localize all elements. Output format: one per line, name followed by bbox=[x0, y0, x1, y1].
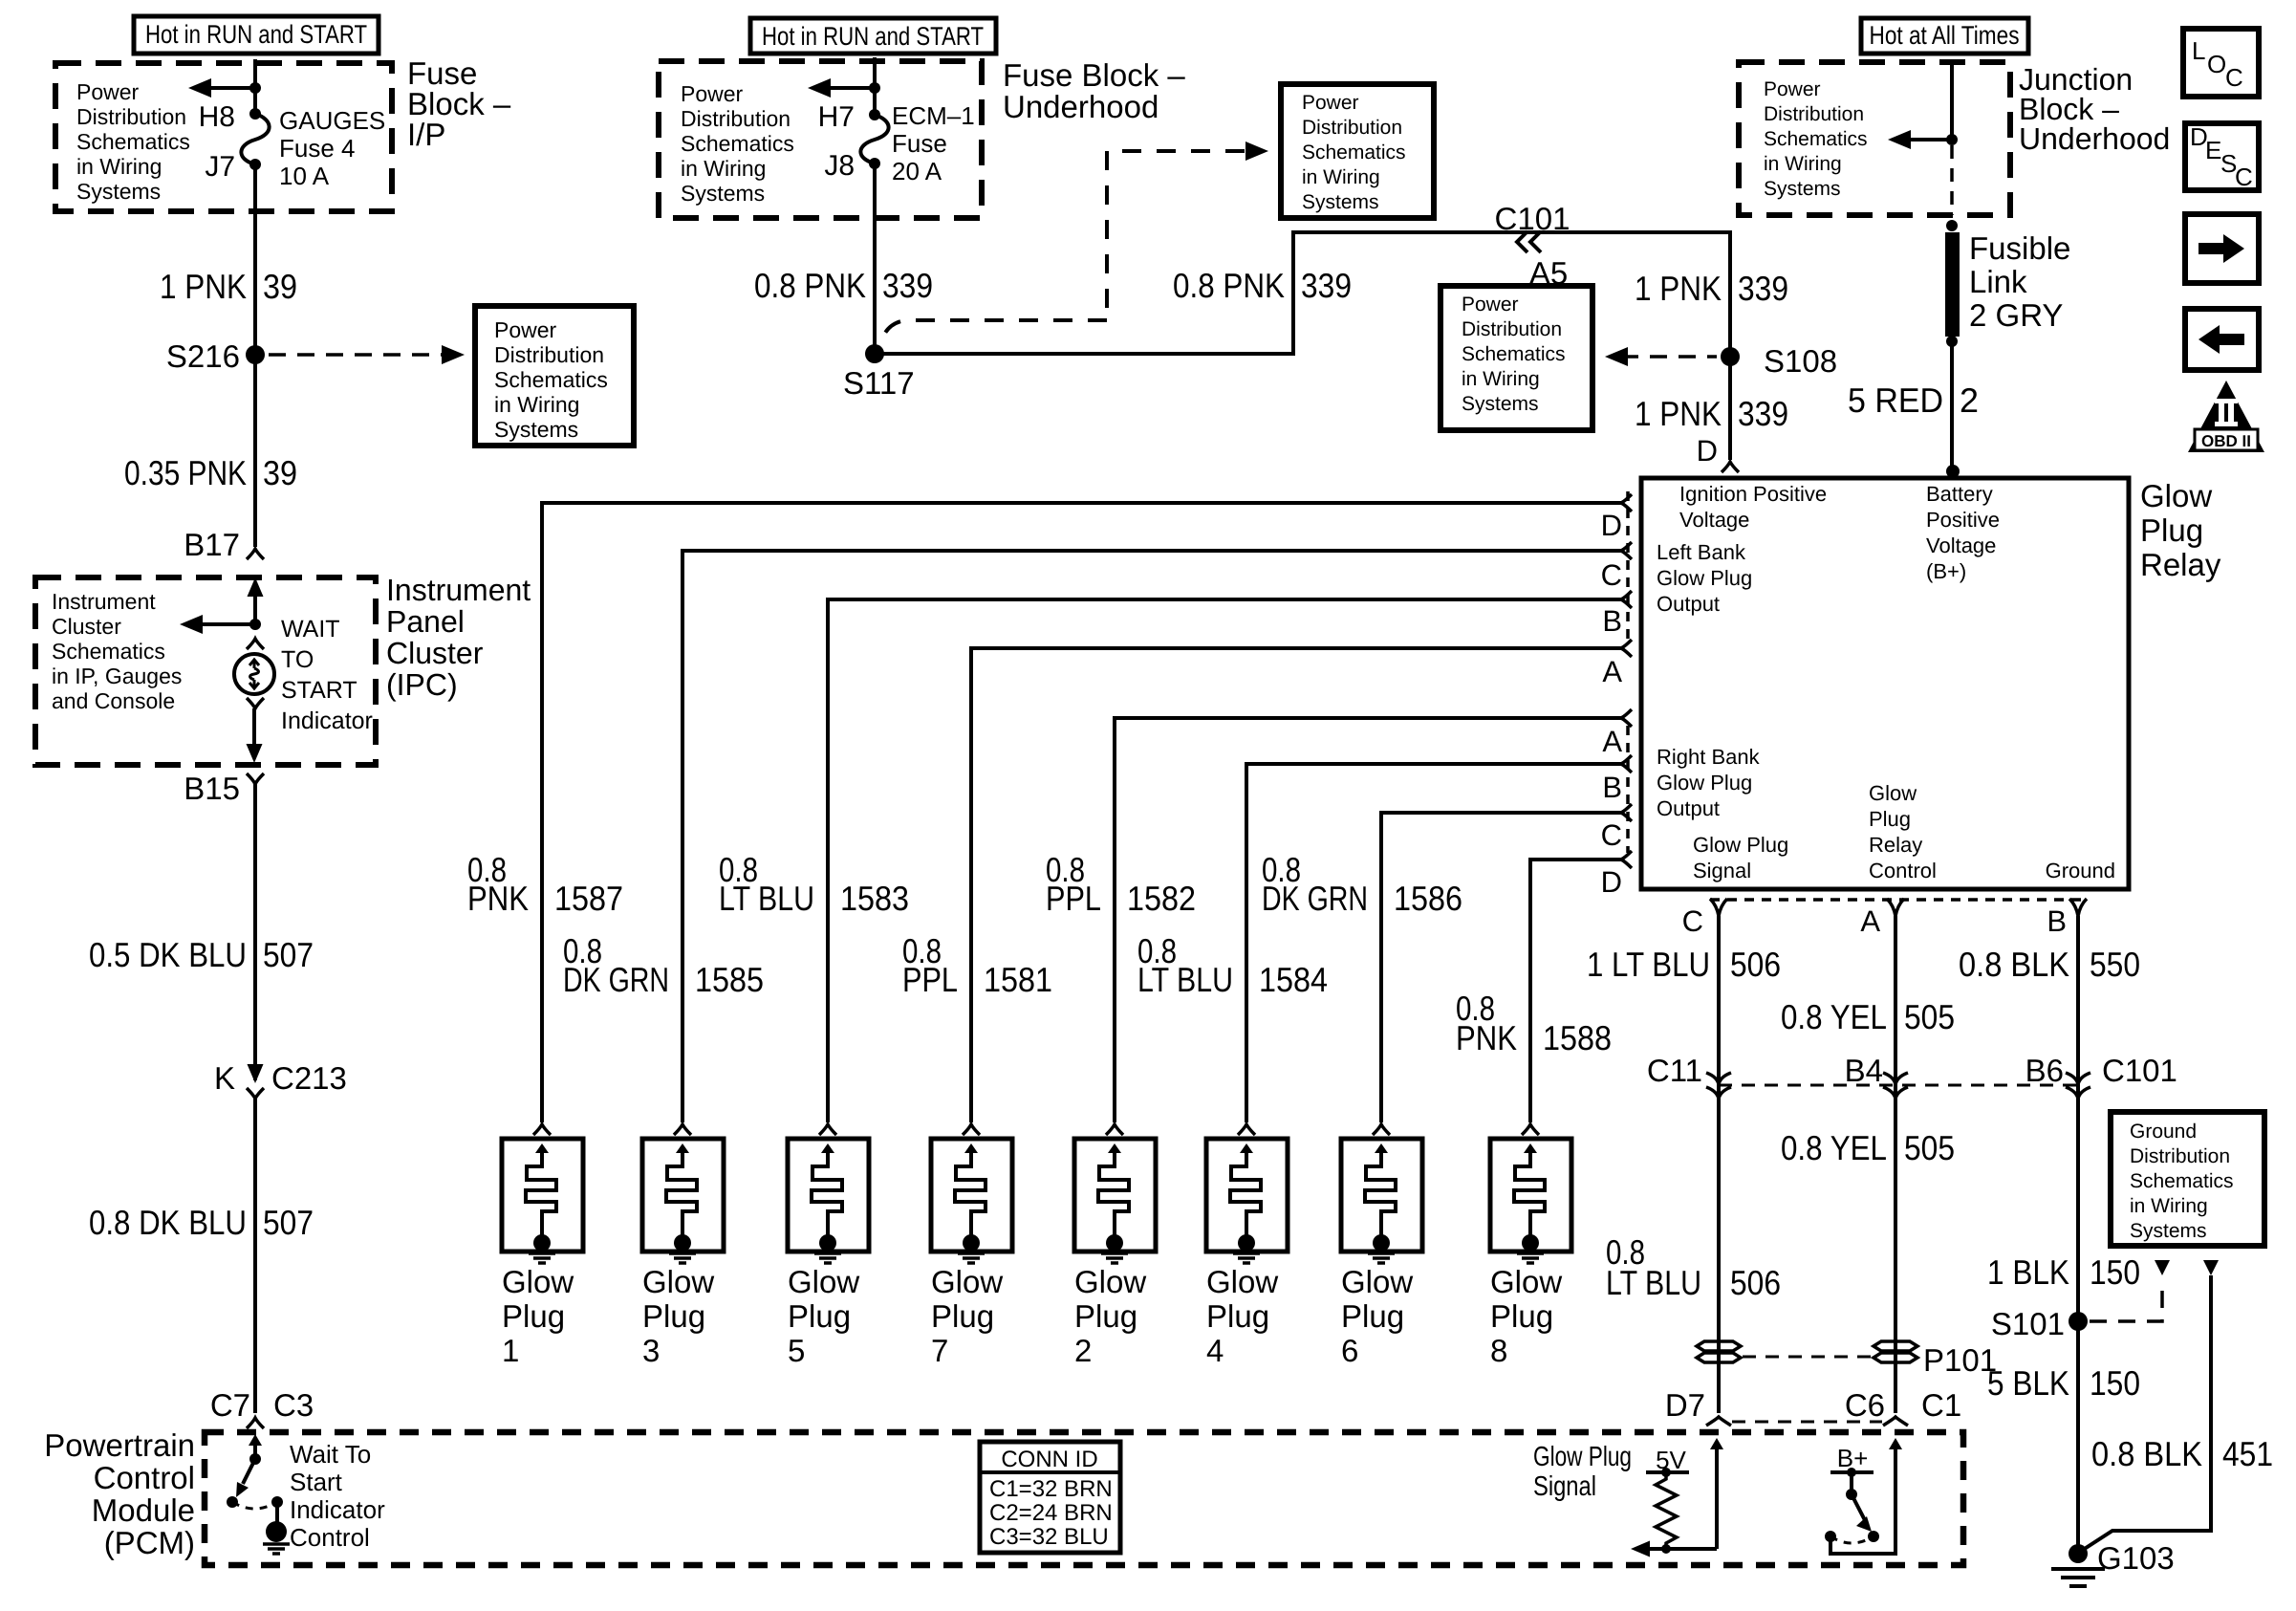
icon: arrow left box bbox=[2185, 309, 2259, 370]
relay left pin D2 connector bbox=[1621, 851, 1632, 868]
svg-text:0.8 PNK: 0.8 PNK bbox=[754, 266, 866, 305]
svg-text:Schematics: Schematics bbox=[2130, 1170, 2234, 1192]
svg-text:Indicator: Indicator bbox=[290, 1495, 385, 1524]
svg-text:WAIT: WAIT bbox=[281, 616, 340, 642]
relay left pin B1 connector bbox=[1621, 591, 1632, 608]
svg-text:Battery: Battery bbox=[1926, 482, 1993, 506]
svg-text:Schematics: Schematics bbox=[1302, 142, 1406, 163]
svg-text:B4: B4 bbox=[1845, 1053, 1883, 1088]
battery pin junction dot bbox=[1946, 465, 1960, 478]
svg-text:in Wiring: in Wiring bbox=[1302, 166, 1380, 188]
svg-text:Glow: Glow bbox=[931, 1264, 1003, 1299]
svg-text:Hot in RUN and START: Hot in RUN and START bbox=[762, 22, 984, 51]
svg-text:Glow: Glow bbox=[502, 1264, 574, 1299]
svg-text:2: 2 bbox=[1960, 381, 1979, 420]
relay bottom pin B connector bbox=[2069, 899, 2087, 916]
svg-text:Underhood: Underhood bbox=[1003, 89, 1159, 124]
svg-text:Glow: Glow bbox=[1206, 1264, 1278, 1299]
svg-text:0.8 PNK: 0.8 PNK bbox=[1173, 266, 1285, 305]
wire: S117 to C101 run bbox=[875, 232, 1730, 357]
svg-text:D: D bbox=[1697, 434, 1718, 468]
svg-text:Link: Link bbox=[1969, 264, 2027, 299]
svg-text:E: E bbox=[2205, 136, 2221, 164]
svg-text:Glow Plug: Glow Plug bbox=[1657, 771, 1752, 795]
svg-text:506: 506 bbox=[1730, 1263, 1781, 1302]
svg-text:Underhood: Underhood bbox=[2019, 121, 2170, 156]
icon: LOC box bbox=[2183, 29, 2259, 97]
svg-text:Plug: Plug bbox=[642, 1298, 705, 1334]
icon: OBD II triangle bbox=[2188, 381, 2264, 452]
WAIT TO START indicator lamp bbox=[247, 639, 264, 649]
reference box: Power Distribution Schematics (right) bbox=[1440, 286, 1592, 430]
wire: fuse4 to S216 bbox=[253, 164, 257, 355]
svg-text:TO: TO bbox=[281, 646, 314, 673]
grommet P101 on A wire bbox=[1874, 1341, 1917, 1351]
fusible link bbox=[1946, 220, 1958, 231]
svg-text:OBD II: OBD II bbox=[2201, 432, 2251, 450]
svg-text:Output: Output bbox=[1657, 796, 1720, 820]
svg-text:Plug: Plug bbox=[1074, 1298, 1137, 1334]
fuse block I/P dashed box bbox=[55, 63, 392, 211]
svg-text:(PCM): (PCM) bbox=[104, 1525, 195, 1560]
glow plug 4 bbox=[1238, 1124, 1255, 1135]
svg-text:P101: P101 bbox=[1923, 1342, 1997, 1378]
svg-text:B17: B17 bbox=[184, 527, 240, 562]
svg-text:Plug: Plug bbox=[1206, 1298, 1269, 1334]
svg-text:Schematics: Schematics bbox=[76, 129, 190, 154]
svg-text:B: B bbox=[2047, 904, 2067, 938]
svg-text:D7: D7 bbox=[1665, 1387, 1705, 1423]
relay left pin D1 connector bbox=[1621, 494, 1632, 512]
svg-text:3: 3 bbox=[642, 1333, 660, 1368]
arrow to instrument cluster schematics bbox=[194, 622, 255, 626]
svg-text:0.8 BLK: 0.8 BLK bbox=[2091, 1434, 2202, 1473]
glow plug 7 bbox=[963, 1124, 980, 1135]
junction dot on fuse feed bbox=[249, 82, 261, 94]
svg-text:8: 8 bbox=[1490, 1333, 1507, 1368]
svg-text:Plug: Plug bbox=[1869, 807, 1911, 831]
svg-text:Module: Module bbox=[92, 1492, 195, 1528]
fuse F4 GAUGES symbol bbox=[249, 108, 261, 120]
wire: relay pin C to PCM D7 bbox=[1717, 916, 1721, 1413]
svg-text:150: 150 bbox=[2090, 1363, 2140, 1403]
svg-text:5 RED: 5 RED bbox=[1848, 381, 1943, 420]
svg-text:1 PNK: 1 PNK bbox=[160, 267, 247, 306]
svg-text:507: 507 bbox=[263, 935, 314, 974]
svg-text:LT BLU: LT BLU bbox=[1137, 960, 1233, 999]
glow plug 8 bbox=[1522, 1124, 1539, 1135]
svg-text:in IP, Gauges: in IP, Gauges bbox=[52, 664, 182, 688]
junction dot on ECM feed bbox=[869, 82, 880, 94]
arrow to power distribution (junction) bbox=[1902, 138, 1952, 142]
svg-text:Systems: Systems bbox=[1302, 191, 1379, 213]
splice S108 bbox=[1721, 347, 1740, 366]
svg-text:1588: 1588 bbox=[1543, 1018, 1612, 1057]
wire: 451 ground wire bbox=[2203, 1260, 2219, 1275]
relay left pin A1 connector bbox=[1621, 640, 1632, 657]
svg-text:Distribution: Distribution bbox=[1764, 103, 1864, 125]
svg-text:Hot in RUN and START: Hot in RUN and START bbox=[145, 20, 367, 49]
relay bottom pin C connector bbox=[1710, 899, 1727, 916]
svg-text:Plug: Plug bbox=[502, 1298, 565, 1334]
dashed link C11-B4-B6 bbox=[1719, 1084, 2078, 1087]
PCM dashed box bbox=[205, 1432, 1963, 1565]
svg-text:A: A bbox=[1860, 904, 1880, 938]
splice S101 bbox=[2069, 1312, 2088, 1331]
svg-text:LT BLU: LT BLU bbox=[719, 879, 814, 918]
svg-text:Glow Plug: Glow Plug bbox=[1693, 833, 1788, 857]
CONN ID table bbox=[980, 1442, 1120, 1553]
relay left pin C1 connector bbox=[1621, 542, 1632, 559]
svg-text:1 PNK: 1 PNK bbox=[1635, 394, 1722, 433]
svg-text:20 A: 20 A bbox=[892, 157, 942, 185]
svg-text:B15: B15 bbox=[184, 771, 240, 806]
svg-text:505: 505 bbox=[1904, 997, 1955, 1036]
svg-text:PNK: PNK bbox=[1456, 1018, 1517, 1057]
svg-text:J8: J8 bbox=[824, 150, 855, 182]
svg-text:Positive: Positive bbox=[1926, 508, 2000, 532]
relay left pin C2 connector bbox=[1621, 804, 1632, 821]
svg-text:Schematics: Schematics bbox=[1764, 128, 1868, 150]
PCM glow plug signal wire D7 bbox=[1710, 1438, 1723, 1449]
svg-text:C: C bbox=[1601, 818, 1622, 852]
svg-text:D: D bbox=[1601, 865, 1622, 899]
svg-text:451: 451 bbox=[2222, 1434, 2273, 1473]
wire lamp to IPC bottom with arrow bbox=[252, 708, 256, 746]
svg-text:START: START bbox=[281, 677, 357, 704]
svg-text:C7: C7 bbox=[210, 1387, 250, 1423]
svg-text:Power: Power bbox=[1462, 294, 1519, 316]
svg-text:1585: 1585 bbox=[695, 960, 764, 999]
svg-text:S101: S101 bbox=[1991, 1306, 2065, 1341]
dashed reference path near S117 to power distribution box bbox=[883, 320, 1107, 337]
svg-text:B: B bbox=[1602, 771, 1622, 804]
svg-text:Plug: Plug bbox=[931, 1298, 994, 1334]
svg-text:0.8 BLK: 0.8 BLK bbox=[1959, 945, 2069, 984]
svg-text:5V: 5V bbox=[1656, 1446, 1686, 1474]
svg-text:I/P: I/P bbox=[407, 117, 445, 152]
svg-text:Power: Power bbox=[681, 81, 744, 106]
header box: Hot in RUN and START (middle) bbox=[750, 18, 996, 54]
svg-text:in Wiring: in Wiring bbox=[1764, 153, 1842, 175]
svg-text:Glow: Glow bbox=[642, 1264, 714, 1299]
svg-text:39: 39 bbox=[263, 267, 297, 306]
svg-text:Systems: Systems bbox=[494, 417, 578, 442]
svg-text:339: 339 bbox=[1301, 266, 1352, 305]
svg-text:GAUGES: GAUGES bbox=[279, 106, 385, 135]
svg-text:H7: H7 bbox=[818, 101, 855, 133]
svg-text:Glow: Glow bbox=[2140, 478, 2212, 513]
splice S216 bbox=[246, 345, 265, 364]
svg-text:Systems: Systems bbox=[681, 181, 765, 206]
wire: relay left bank pin to glow plug 6 bbox=[1381, 813, 1621, 1122]
svg-text:S216: S216 bbox=[166, 338, 240, 374]
svg-text:LT BLU: LT BLU bbox=[1606, 1263, 1701, 1302]
svg-text:C3=32 BLU: C3=32 BLU bbox=[989, 1524, 1109, 1550]
svg-text:Output: Output bbox=[1657, 592, 1720, 616]
svg-text:CONN ID: CONN ID bbox=[1001, 1447, 1097, 1472]
wire inside junction block bbox=[1950, 59, 1954, 140]
svg-text:Distribution: Distribution bbox=[2130, 1145, 2230, 1167]
svg-text:0.8 YEL: 0.8 YEL bbox=[1781, 997, 1887, 1036]
svg-text:0.35 PNK: 0.35 PNK bbox=[124, 453, 247, 492]
svg-text:2 GRY: 2 GRY bbox=[1969, 297, 2063, 333]
svg-text:1586: 1586 bbox=[1394, 879, 1462, 918]
svg-text:O: O bbox=[2207, 50, 2226, 78]
wire: fuse4 feed vertical bbox=[253, 59, 257, 114]
svg-text:339: 339 bbox=[882, 266, 933, 305]
svg-text:Plug: Plug bbox=[1341, 1298, 1404, 1334]
svg-text:L: L bbox=[2192, 36, 2205, 65]
ground distribution reference box bbox=[2111, 1112, 2264, 1246]
svg-text:Instrument: Instrument bbox=[386, 573, 531, 607]
svg-text:in Wiring: in Wiring bbox=[681, 156, 766, 181]
glow plug 5 bbox=[819, 1124, 836, 1135]
relay left pin B2 connector bbox=[1621, 755, 1632, 773]
svg-text:0.8 DK BLU: 0.8 DK BLU bbox=[89, 1203, 247, 1242]
wire: relay left bank pin to glow plug 1 bbox=[542, 503, 1621, 1122]
junction block dashed box bbox=[1739, 62, 2010, 215]
svg-text:Fuse 4: Fuse 4 bbox=[279, 134, 356, 163]
svg-text:(B+): (B+) bbox=[1926, 559, 1966, 583]
svg-text:C2=24 BRN: C2=24 BRN bbox=[989, 1500, 1113, 1526]
wire: relay pin B to G103 bbox=[2076, 916, 2080, 1554]
dashed arrow S108 to power distribution box bbox=[1621, 355, 1717, 359]
svg-text:DK GRN: DK GRN bbox=[563, 960, 669, 999]
ground G103 bbox=[2069, 1544, 2088, 1563]
PCM wait-to-start driver symbol bbox=[249, 1434, 262, 1446]
svg-text:C: C bbox=[2225, 63, 2243, 92]
header box: Hot at All Times bbox=[1861, 18, 2028, 54]
svg-text:Relay: Relay bbox=[1869, 833, 1922, 857]
svg-text:in Wiring: in Wiring bbox=[2130, 1195, 2208, 1217]
svg-text:5 BLK: 5 BLK bbox=[1987, 1363, 2069, 1403]
svg-text:Distribution: Distribution bbox=[1462, 318, 1562, 340]
wire: C213 to PCM bbox=[253, 1099, 257, 1413]
wire: ECM-1 feed vertical bbox=[873, 57, 877, 115]
svg-text:Control: Control bbox=[290, 1523, 370, 1552]
svg-text:Systems: Systems bbox=[76, 179, 161, 204]
svg-text:PNK: PNK bbox=[467, 879, 529, 918]
svg-text:1587: 1587 bbox=[554, 879, 623, 918]
svg-text:505: 505 bbox=[1904, 1128, 1955, 1167]
svg-text:Glow: Glow bbox=[1490, 1264, 1562, 1299]
svg-text:Ignition Positive: Ignition Positive bbox=[1679, 482, 1827, 506]
svg-text:Glow Plug: Glow Plug bbox=[1533, 1442, 1632, 1472]
svg-text:1584: 1584 bbox=[1259, 960, 1328, 999]
svg-text:Signal: Signal bbox=[1693, 859, 1751, 882]
svg-text:PPL: PPL bbox=[1046, 879, 1101, 918]
svg-text:1582: 1582 bbox=[1127, 879, 1196, 918]
svg-text:Distribution: Distribution bbox=[681, 106, 791, 131]
header box: Hot in RUN and START (left) bbox=[134, 16, 379, 54]
svg-text:C213: C213 bbox=[271, 1060, 347, 1096]
wire: relay left bank pin to glow plug 7 bbox=[971, 648, 1621, 1122]
svg-text:7: 7 bbox=[931, 1333, 948, 1368]
svg-text:1: 1 bbox=[502, 1333, 519, 1368]
svg-text:Plug: Plug bbox=[788, 1298, 851, 1334]
glow plug relay box bbox=[1641, 478, 2129, 889]
svg-text:507: 507 bbox=[263, 1203, 314, 1242]
svg-text:1581: 1581 bbox=[984, 960, 1052, 999]
PCM relay control wire C6 bbox=[1830, 1449, 1895, 1554]
arrow to power distribution (left) bbox=[203, 86, 255, 90]
svg-text:A: A bbox=[1602, 725, 1622, 758]
svg-text:A: A bbox=[1602, 655, 1622, 688]
svg-text:Systems: Systems bbox=[2130, 1220, 2207, 1242]
svg-text:Glow: Glow bbox=[1869, 781, 1917, 805]
svg-text:506: 506 bbox=[1730, 945, 1781, 984]
glow plug 3 bbox=[674, 1124, 691, 1135]
svg-text:Distribution: Distribution bbox=[1302, 117, 1402, 139]
svg-text:Fuse: Fuse bbox=[892, 129, 947, 158]
dashed link P101 bbox=[1743, 1356, 1872, 1359]
svg-text:Instrument: Instrument bbox=[52, 589, 156, 614]
wire: relay left bank pin to glow plug 5 bbox=[828, 599, 1621, 1122]
svg-text:in Wiring: in Wiring bbox=[494, 392, 579, 417]
wire: B15 to C213 bbox=[253, 784, 257, 1080]
svg-text:150: 150 bbox=[2090, 1252, 2140, 1292]
svg-text:1583: 1583 bbox=[840, 879, 909, 918]
splice S117 bbox=[865, 344, 884, 363]
svg-text:Glow: Glow bbox=[1074, 1264, 1146, 1299]
svg-text:Schematics: Schematics bbox=[52, 639, 165, 664]
arrow to power distribution (middle) bbox=[822, 86, 875, 90]
glow plug 6 bbox=[1373, 1124, 1390, 1135]
grommet P101 on C wire bbox=[1697, 1341, 1741, 1351]
svg-text:Systems: Systems bbox=[1462, 393, 1539, 415]
dashed link D7-C6 bbox=[1732, 1421, 1882, 1424]
svg-text:C1: C1 bbox=[1921, 1387, 1961, 1423]
svg-text:C6: C6 bbox=[1845, 1387, 1885, 1423]
svg-text:Glow: Glow bbox=[1341, 1264, 1413, 1299]
wire: ECM-1 fuse to S117 bbox=[873, 163, 877, 354]
svg-text:C101: C101 bbox=[2102, 1053, 2177, 1088]
svg-text:ECM–1: ECM–1 bbox=[892, 101, 975, 130]
IPC dashed box bbox=[35, 577, 376, 765]
wire: relay left bank pin to glow plug 4 bbox=[1246, 764, 1621, 1122]
svg-text:Wait To: Wait To bbox=[290, 1440, 371, 1469]
svg-text:Start: Start bbox=[290, 1468, 343, 1496]
fuse block underhood dashed box bbox=[659, 61, 982, 218]
relay bottom connector dashed strip bbox=[1710, 898, 2087, 902]
icon: DESC box bbox=[2185, 123, 2259, 190]
svg-text:Relay: Relay bbox=[2140, 547, 2221, 582]
svg-text:39: 39 bbox=[263, 453, 297, 492]
svg-text:Right Bank: Right Bank bbox=[1657, 745, 1761, 769]
svg-text:H8: H8 bbox=[199, 101, 235, 133]
svg-text:Plug: Plug bbox=[1490, 1298, 1553, 1334]
svg-text:Schematics: Schematics bbox=[494, 367, 608, 392]
wire: S216 to B17 bbox=[253, 355, 257, 547]
svg-text:Voltage: Voltage bbox=[1926, 533, 1996, 557]
svg-text:Schematics: Schematics bbox=[1462, 343, 1566, 365]
svg-text:1 PNK: 1 PNK bbox=[1635, 269, 1722, 308]
svg-text:550: 550 bbox=[2090, 945, 2140, 984]
svg-text:Power: Power bbox=[1302, 92, 1359, 114]
svg-text:(IPC): (IPC) bbox=[386, 667, 458, 702]
dashed arrow S216 to power distribution box bbox=[269, 353, 442, 357]
wire: fusible link to relay battery pin bbox=[1950, 341, 1954, 474]
svg-text:C: C bbox=[1601, 558, 1622, 592]
wire: S108 to relay pin D bbox=[1728, 357, 1732, 460]
dashed link S101 to ground distribution bbox=[2090, 1279, 2162, 1321]
svg-text:Hot at All Times: Hot at All Times bbox=[1870, 21, 2020, 50]
svg-text:4: 4 bbox=[1206, 1333, 1224, 1368]
svg-text:Panel: Panel bbox=[386, 604, 465, 639]
svg-text:Power: Power bbox=[1764, 78, 1821, 100]
glow plug 1 bbox=[533, 1124, 551, 1135]
svg-text:PPL: PPL bbox=[902, 960, 958, 999]
junction dot in IPC bbox=[249, 619, 261, 630]
svg-text:Signal: Signal bbox=[1533, 1471, 1596, 1502]
svg-text:2: 2 bbox=[1074, 1333, 1092, 1368]
svg-text:339: 339 bbox=[1738, 394, 1788, 433]
svg-text:K: K bbox=[214, 1060, 235, 1096]
svg-text:Cluster: Cluster bbox=[386, 636, 484, 670]
svg-text:Fuse Block –: Fuse Block – bbox=[1003, 57, 1185, 93]
glow plug 2 bbox=[1106, 1124, 1123, 1135]
svg-text:Ground: Ground bbox=[2046, 859, 2115, 882]
svg-text:Glow: Glow bbox=[788, 1264, 859, 1299]
svg-text:Voltage: Voltage bbox=[1679, 508, 1749, 532]
svg-text:339: 339 bbox=[1738, 269, 1788, 308]
svg-text:DK GRN: DK GRN bbox=[1262, 879, 1368, 918]
svg-text:0.5 DK BLU: 0.5 DK BLU bbox=[89, 935, 247, 974]
relay left pin connector dashed strip bbox=[1626, 491, 1630, 641]
dashed wire to junction box bottom bbox=[1950, 145, 1954, 215]
svg-text:Distribution: Distribution bbox=[76, 104, 186, 129]
svg-text:Plug: Plug bbox=[2140, 512, 2203, 548]
svg-text:and Console: and Console bbox=[52, 688, 175, 713]
svg-text:C11: C11 bbox=[1647, 1053, 1702, 1088]
svg-text:G103: G103 bbox=[2097, 1540, 2175, 1576]
svg-text:Schematics: Schematics bbox=[681, 131, 794, 156]
svg-text:Power: Power bbox=[76, 79, 140, 104]
svg-text:S117: S117 bbox=[843, 365, 915, 401]
svg-text:Cluster: Cluster bbox=[52, 614, 121, 639]
svg-text:C3: C3 bbox=[273, 1387, 314, 1423]
svg-text:Left Bank: Left Bank bbox=[1657, 540, 1746, 564]
svg-text:Powertrain: Powertrain bbox=[44, 1427, 195, 1463]
svg-text:Control: Control bbox=[1869, 859, 1937, 882]
reference box: Power Distribution Schematics (below fuse I/P) bbox=[475, 306, 634, 446]
svg-text:6: 6 bbox=[1341, 1333, 1358, 1368]
svg-text:B6: B6 bbox=[2025, 1053, 2064, 1088]
wire: relay left bank pin to glow plug 3 bbox=[682, 551, 1621, 1122]
svg-text:5: 5 bbox=[788, 1333, 805, 1368]
svg-text:S108: S108 bbox=[1764, 343, 1837, 379]
wire/arrow inside IPC top bbox=[248, 577, 264, 597]
svg-text:1 LT BLU: 1 LT BLU bbox=[1587, 945, 1710, 984]
svg-text:C1=32 BRN: C1=32 BRN bbox=[989, 1476, 1113, 1502]
reference box: Power Distribution Schematics (top middle) bbox=[1281, 84, 1434, 218]
svg-text:Glow Plug: Glow Plug bbox=[1657, 566, 1752, 590]
svg-text:Indicator: Indicator bbox=[281, 708, 373, 734]
svg-text:C101: C101 bbox=[1495, 201, 1570, 236]
svg-text:Systems: Systems bbox=[1764, 178, 1841, 200]
svg-text:J7: J7 bbox=[205, 151, 235, 183]
wire: relay left bank pin to glow plug 8 bbox=[1530, 860, 1621, 1122]
svg-text:C: C bbox=[1682, 904, 1703, 938]
svg-text:D: D bbox=[1601, 509, 1622, 542]
svg-text:Distribution: Distribution bbox=[494, 342, 604, 367]
svg-text:Control: Control bbox=[94, 1460, 195, 1495]
fuse ECM-1 symbol bbox=[869, 109, 880, 120]
icon: arrow right box bbox=[2185, 214, 2259, 283]
wire: relay left bank pin to glow plug 2 bbox=[1115, 718, 1621, 1122]
relay left pin A2 connector bbox=[1621, 709, 1632, 727]
